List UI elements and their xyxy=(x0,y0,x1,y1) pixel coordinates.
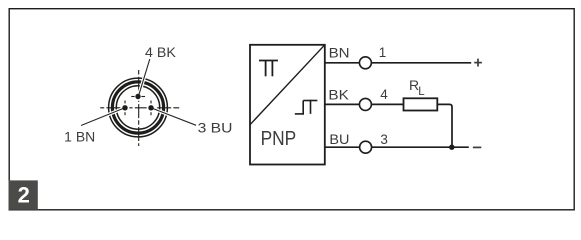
wire resistor to corner xyxy=(437,104,452,147)
connector inner circle xyxy=(116,86,159,129)
svg-text:3 BU: 3 BU xyxy=(198,121,233,136)
wire BN xyxy=(325,62,359,64)
wire BK to resistor xyxy=(371,103,403,105)
plus terminal xyxy=(474,62,482,64)
leader line to pin 4 xyxy=(139,59,150,96)
pin 1 (left) xyxy=(122,105,127,110)
hysteresis symbol xyxy=(295,100,318,115)
resistor RL xyxy=(404,98,438,110)
svg-text:2: 2 xyxy=(18,182,30,207)
pin 4 (top) xyxy=(135,94,140,99)
connector outer circle xyxy=(109,78,168,137)
vertical centerline xyxy=(138,70,140,146)
figure number box xyxy=(9,180,38,209)
pin 3 (right) xyxy=(148,105,153,110)
svg-text:L: L xyxy=(418,86,425,98)
svg-text:BN: BN xyxy=(329,46,350,61)
terminal circle pin 3 xyxy=(360,141,372,153)
pin halo 1 xyxy=(121,103,130,112)
diagonal divider xyxy=(250,45,325,125)
svg-text:BU: BU xyxy=(329,132,349,147)
wire BK xyxy=(325,103,359,105)
svg-text:3: 3 xyxy=(380,132,388,147)
junction node xyxy=(449,145,454,150)
pin halo 3 xyxy=(147,103,156,112)
wire BU to minus xyxy=(372,146,469,148)
leader line to pin 1 xyxy=(81,108,125,126)
connector middle ring xyxy=(112,82,163,133)
sensor box U1 xyxy=(250,45,325,165)
inductive sensor symbol xyxy=(259,61,278,77)
wire BU xyxy=(325,146,360,148)
svg-text:4 BK: 4 BK xyxy=(145,45,176,60)
svg-text:PNP: PNP xyxy=(261,128,297,150)
terminal circle pin 4 xyxy=(359,98,371,110)
wire BN to plus xyxy=(371,62,471,64)
svg-text:1: 1 xyxy=(379,45,387,60)
leader line to pin 3 xyxy=(151,108,196,125)
svg-text:4: 4 xyxy=(380,87,388,102)
horizontal centerline xyxy=(100,107,179,109)
svg-text:1 BN: 1 BN xyxy=(64,129,95,144)
pin halo 4 xyxy=(134,92,143,101)
minus terminal xyxy=(473,146,481,148)
terminal circle pin 1 xyxy=(359,57,371,69)
svg-text:BK: BK xyxy=(328,87,348,102)
